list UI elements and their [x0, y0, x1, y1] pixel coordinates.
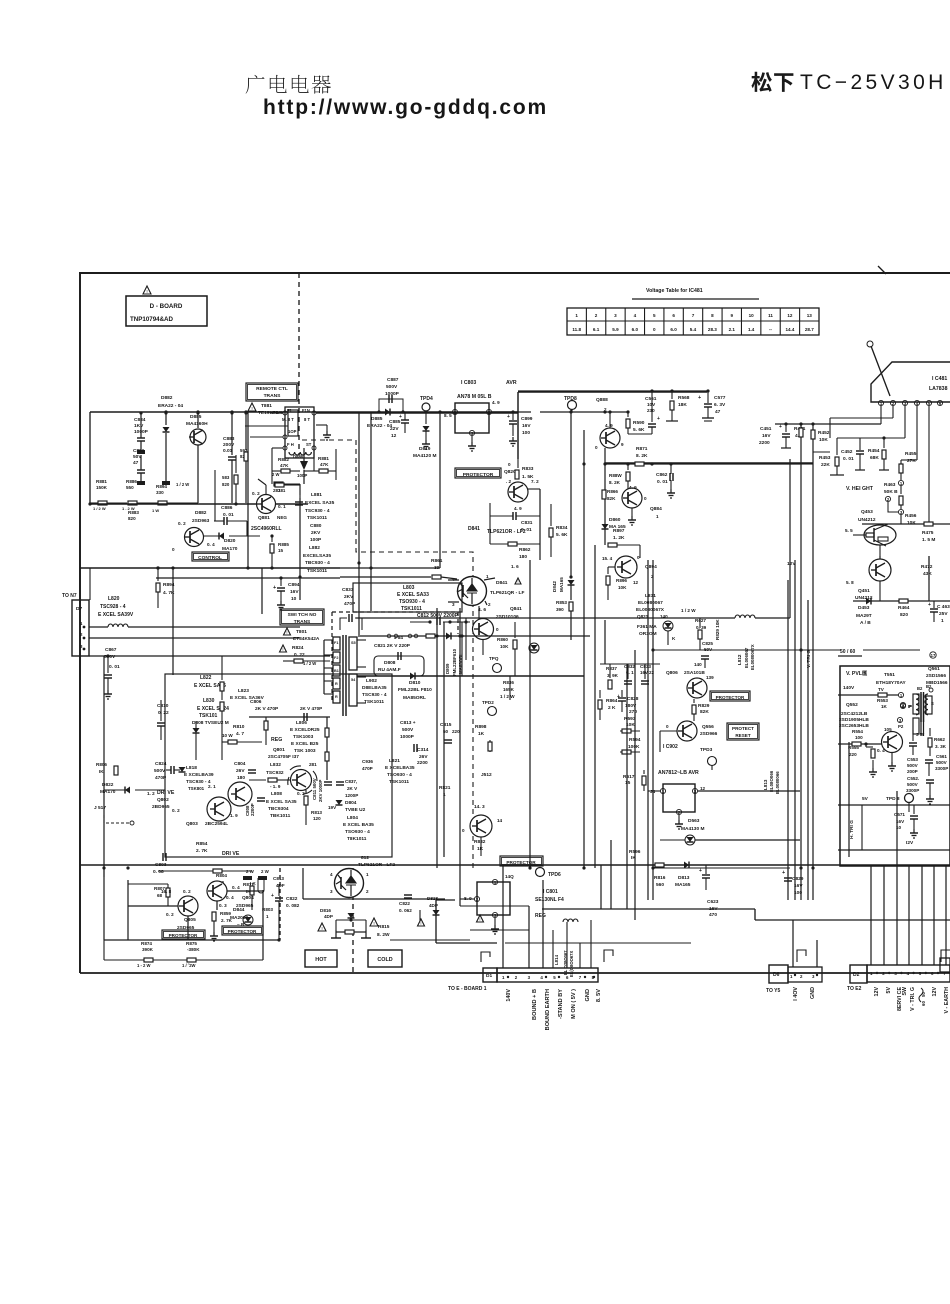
svg-text:RESET: RESET — [735, 733, 751, 738]
svg-text:D841: D841 — [496, 580, 508, 586]
svg-text:C887: C887 — [387, 377, 399, 383]
svg-text:47K: 47K — [320, 462, 329, 467]
svg-text:8. 2K: 8. 2K — [636, 453, 648, 459]
svg-text:C577: C577 — [714, 395, 726, 401]
svg-text:E XCEL B25: E XCEL B25 — [291, 741, 319, 747]
svg-text:2K V 470P: 2K V 470P — [255, 706, 279, 712]
svg-text:TSK 1003: TSK 1003 — [294, 748, 316, 754]
svg-text:E XCEL SA33: E XCEL SA33 — [397, 592, 429, 598]
page header: site name — [246, 75, 331, 94]
svg-text:AVR: AVR — [506, 380, 517, 386]
svg-text:18K: 18K — [678, 402, 687, 408]
V.PVL inner vertical and bottom wires — [848, 742, 850, 857]
svg-text:Q451: Q451 — [858, 588, 870, 594]
transistor Q451 UN4212 — [869, 559, 891, 581]
svg-text:D2: D2 — [853, 972, 860, 978]
svg-text:4. 6: 4. 6 — [478, 607, 486, 613]
svg-text:5. 6K: 5. 6K — [633, 427, 645, 433]
svg-text:F H: F H — [287, 442, 294, 447]
svg-text:8. 2K: 8. 2K — [609, 480, 621, 485]
svg-text:HOT: HOT — [315, 957, 327, 963]
svg-text:R: R — [335, 695, 338, 699]
svg-text:TSK801: TSK801 — [188, 786, 205, 791]
svg-text:MA170: MA170 — [222, 546, 238, 552]
svg-text:R832: R832 — [474, 839, 486, 845]
svg-text:TPD4: TPD4 — [420, 396, 433, 402]
svg-text:C884: C884 — [134, 417, 146, 423]
wire x=262 vertical — [261, 568, 263, 614]
wire verticals x=627 x=635 — [626, 664, 628, 909]
connector D7 box — [72, 600, 89, 656]
resistor R816 560 — [655, 863, 664, 867]
svg-text:R456: R456 — [905, 513, 917, 519]
svg-text:4. 9: 4. 9 — [492, 400, 500, 405]
svg-text:0: 0 — [637, 555, 640, 560]
svg-text:C881: C881 — [133, 448, 145, 454]
resistor R859 2.7K — [212, 912, 216, 921]
svg-text:1. 5 M: 1. 5 M — [922, 537, 935, 543]
svg-text:100P: 100P — [310, 537, 322, 543]
svg-text:MA4120 M: MA4120 M — [413, 453, 436, 459]
svg-text:9: 9 — [730, 313, 733, 318]
svg-text:T551: T551 — [884, 672, 895, 678]
wire y=412 segment mid — [540, 411, 628, 413]
svg-text:UN4212: UN4212 — [855, 595, 873, 601]
svg-text:9: 9 — [621, 442, 624, 447]
wire pin5 down — [928, 406, 930, 524]
wire vertical x=929 extension — [928, 556, 930, 601]
svg-text:. 2: . 2 — [506, 479, 512, 484]
svg-text:TC−25V30H: TC−25V30H — [800, 71, 947, 94]
bracket hook D6 — [797, 950, 806, 962]
svg-text:R885: R885 — [278, 542, 289, 547]
svg-text:I 4OV: I 4OV — [793, 987, 799, 1001]
svg-text:+: + — [657, 416, 660, 422]
svg-text:TSO930 - 4: TSO930 - 4 — [387, 772, 412, 778]
svg-text:PROTECTOR: PROTECTOR — [716, 695, 745, 700]
svg-text:4DF: 4DF — [276, 883, 285, 888]
svg-text:470P: 470P — [155, 775, 167, 781]
svg-text:TLP621QR - LF: TLP621QR - LF — [490, 590, 524, 596]
svg-text:R897: R897 — [613, 528, 625, 534]
svg-text:B2: B2 — [917, 686, 923, 691]
svg-text:R810: R810 — [233, 724, 245, 730]
wire y=618 with coil L812 — [660, 617, 735, 619]
svg-text:R: R — [335, 682, 338, 686]
wire transformer ground hook — [316, 424, 327, 426]
wire D7 pin1 long — [160, 626, 300, 628]
PROTECTOR label box 4 — [222, 926, 263, 935]
svg-text:8. 5V: 8. 5V — [596, 989, 602, 1002]
svg-text:D842: D842 — [552, 581, 557, 592]
svg-text:!: ! — [518, 580, 519, 584]
svg-text:K: K — [672, 636, 676, 641]
svg-text:TSK1011: TSK1011 — [401, 606, 422, 612]
svg-text:17: 17 — [931, 653, 936, 658]
svg-text:R452: R452 — [818, 430, 830, 436]
svg-text:0. 01: 0. 01 — [843, 456, 854, 462]
svg-text:5. 6K: 5. 6K — [556, 532, 568, 538]
svg-text:0. 062: 0. 062 — [399, 908, 412, 913]
svg-text:140V: 140V — [506, 989, 512, 1002]
capacitor C811 1000P — [324, 781, 332, 783]
svg-text:12: 12 — [391, 433, 397, 439]
svg-text:2K V 470P: 2K V 470P — [300, 706, 322, 711]
svg-text:PROTECTOR: PROTECTOR — [463, 472, 494, 478]
bracket hook far right — [941, 950, 950, 962]
svg-text:812: 812 — [361, 855, 369, 861]
connector D1 box — [483, 968, 497, 982]
hot/cold isolation dashed line upper — [298, 273, 300, 455]
wire q841 down — [482, 640, 484, 655]
page header: model — [751, 72, 793, 92]
svg-text:+: + — [399, 414, 402, 420]
diode L818 — [179, 767, 186, 772]
svg-text:--: -- — [769, 327, 773, 332]
svg-text:16V: 16V — [794, 883, 803, 889]
svg-text:C452: C452 — [841, 449, 853, 455]
svg-text:47: 47 — [715, 409, 721, 415]
svg-text:1000P: 1000P — [400, 734, 415, 740]
svg-text:L882: L882 — [309, 545, 320, 551]
svg-text:14. 3: 14. 3 — [474, 804, 485, 810]
svg-text:R862: R862 — [519, 547, 531, 553]
svg-text:0: 0 — [666, 724, 669, 729]
svg-text:TSK101: TSK101 — [199, 713, 218, 719]
transistor Q804 — [207, 881, 227, 901]
svg-text:E XCEL SA39V: E XCEL SA39V — [98, 612, 134, 618]
svg-text:D844: D844 — [233, 907, 245, 913]
svg-text:R875: R875 — [186, 941, 197, 946]
svg-text:50 / 60: 50 / 60 — [840, 649, 856, 655]
svg-text:11.8: 11.8 — [572, 327, 581, 332]
wire y=868 right segment — [653, 867, 790, 869]
svg-text:16V: 16V — [522, 423, 531, 429]
svg-text:+: + — [507, 414, 510, 420]
svg-text:2SD1905HLB: 2SD1905HLB — [839, 717, 869, 723]
svg-text:- 1. 9: - 1. 9 — [270, 784, 281, 789]
svg-text:100K: 100K — [628, 744, 640, 750]
svg-text:L821: L821 — [389, 758, 400, 764]
svg-text:RU 4AM.F: RU 4AM.F — [378, 667, 401, 673]
IC481 pins — [878, 400, 883, 405]
svg-text:281: 281 — [273, 488, 281, 493]
svg-text:7: 7 — [692, 313, 695, 318]
svg-text:1: 1 — [366, 872, 369, 877]
svg-text:R568: R568 — [678, 395, 690, 401]
svg-text:C822: C822 — [399, 901, 410, 906]
V.PVL output block box — [840, 666, 950, 866]
svg-text:TPQ: TPQ — [489, 656, 499, 661]
svg-text:8. 2W: 8. 2W — [377, 932, 390, 938]
svg-text:Q802: Q802 — [157, 797, 169, 803]
triangle marker above D-BOARD — [143, 286, 151, 294]
svg-text:R883: R883 — [128, 510, 139, 515]
svg-text:180: 180 — [519, 554, 527, 560]
svg-text:+: + — [271, 893, 274, 899]
wire top y=391 — [518, 390, 707, 392]
svg-text:R898: R898 — [475, 724, 487, 730]
svg-text:I K: I K — [250, 881, 257, 886]
svg-text:TSO930 - 4: TSO930 - 4 — [345, 829, 370, 835]
svg-text:L830: L830 — [203, 698, 215, 704]
svg-text:ET34K542A: ET34K542A — [293, 636, 320, 642]
svg-text:D886: D886 — [293, 454, 304, 459]
svg-text:2SC4212LB: 2SC4212LB — [841, 711, 868, 717]
svg-text:REMOTE CTL: REMOTE CTL — [256, 386, 288, 392]
svg-text:2SC4960RLL: 2SC4960RLL — [251, 526, 282, 532]
svg-text:I C481: I C481 — [932, 376, 947, 382]
IC481 LA7838 body — [871, 362, 950, 402]
svg-text:TSK1011: TSK1011 — [364, 699, 384, 705]
svg-text:2.1: 2.1 — [729, 327, 736, 332]
svg-text:J 517: J 517 — [94, 805, 106, 811]
svg-text:68K: 68K — [870, 455, 879, 461]
svg-text:Q552: Q552 — [846, 702, 858, 708]
svg-text:R464: R464 — [898, 605, 910, 611]
svg-text:0.01: 0.01 — [223, 448, 233, 454]
svg-text:4: 4 — [540, 975, 543, 980]
svg-text:R861: R861 — [431, 558, 443, 564]
svg-text:6.0: 6.0 — [632, 327, 639, 332]
wire vertical bus x=248 — [247, 412, 249, 568]
svg-text:B1: B1 — [334, 669, 339, 673]
svg-text:MA85ORL: MA85ORL — [403, 695, 426, 701]
svg-text:L818: L818 — [186, 765, 197, 771]
svg-text:C825: C825 — [702, 641, 713, 646]
svg-text:R882: R882 — [278, 457, 289, 462]
wire into transformer left — [245, 425, 288, 427]
svg-text:3300P: 3300P — [906, 788, 919, 793]
svg-text:0: 0 — [644, 496, 647, 501]
svg-text:IK: IK — [99, 769, 104, 774]
svg-text:2200: 2200 — [417, 760, 428, 766]
svg-text:1: 1 — [502, 975, 505, 980]
wire Q820 collector right — [528, 488, 540, 490]
PROTECTOR label box 2 — [710, 691, 750, 701]
coil L820 — [89, 626, 108, 628]
svg-text:12: 12 — [633, 580, 639, 585]
svg-text:I2V: I2V — [906, 840, 914, 846]
right bus verticals group — [794, 560, 796, 900]
svg-text:82K: 82K — [700, 709, 709, 715]
svg-text:P2: P2 — [898, 724, 904, 729]
svg-text:22V: 22V — [390, 426, 399, 432]
svg-text:SW: SW — [902, 987, 908, 996]
wire vertical x=466 — [465, 618, 467, 660]
svg-text:139: 139 — [706, 675, 714, 680]
svg-text:F1: F1 — [334, 641, 338, 645]
svg-text:4. 7: 4. 7 — [236, 731, 244, 737]
svg-text:0. 2: 0. 2 — [183, 889, 191, 894]
svg-text:L902: L902 — [366, 678, 377, 684]
svg-text:D820: D820 — [224, 538, 236, 544]
wire pin2 down — [892, 406, 894, 418]
svg-text:Q820: Q820 — [504, 469, 516, 475]
svg-text:TPD6: TPD6 — [548, 872, 561, 878]
svg-text:R806: R806 — [96, 762, 107, 767]
svg-text:+: + — [928, 602, 931, 608]
svg-text:R803: R803 — [262, 907, 273, 912]
svg-text:Q884: Q884 — [650, 506, 662, 512]
wire verticals mid — [600, 865, 602, 909]
svg-text:!: ! — [479, 917, 480, 922]
svg-text:TSO930 - 4: TSO930 - 4 — [399, 599, 425, 605]
svg-text:390K: 390K — [142, 947, 154, 952]
svg-text:4. 9: 4. 9 — [605, 423, 613, 428]
svg-text:R816: R816 — [654, 875, 666, 881]
svg-text:Q453: Q453 — [861, 509, 873, 515]
svg-text:F1N: F1N — [302, 408, 310, 413]
IC801 SE130NLF4 box — [477, 882, 510, 915]
svg-text:0. 2: 0. 2 — [297, 791, 305, 796]
wire y=940 bottom-left — [104, 939, 280, 941]
svg-text:500V: 500V — [936, 760, 948, 765]
svg-text:J512: J512 — [481, 772, 492, 778]
svg-text:+: + — [617, 694, 620, 700]
svg-text:0. 2: 0. 2 — [166, 912, 174, 917]
svg-text:TPD 8: TPD 8 — [886, 796, 900, 802]
svg-text:C862: C862 — [656, 472, 668, 478]
triangle marker T881 — [248, 403, 256, 411]
transistor Q884 — [622, 488, 642, 508]
svg-text:47: 47 — [133, 460, 139, 466]
svg-text:V. TRI G: V. TRI G — [806, 650, 812, 668]
svg-text:D822: D822 — [102, 782, 114, 788]
svg-text:TBC9304: TBC9304 — [268, 806, 289, 812]
bracket hooks D1 — [481, 952, 490, 962]
svg-text:2 W: 2 W — [272, 472, 279, 477]
svg-text:R463: R463 — [884, 482, 896, 488]
svg-text:C832: C832 — [624, 664, 635, 669]
svg-text:TPD3: TPD3 — [700, 747, 713, 753]
svg-text:TSK1011: TSK1011 — [307, 568, 327, 574]
wires near D818 — [419, 910, 421, 921]
svg-text:105: 105 — [884, 727, 892, 732]
svg-text:1K: 1K — [881, 704, 888, 709]
svg-text:1 / 2 W: 1 / 2 W — [176, 482, 189, 487]
wire vertical x=605 extension — [604, 620, 606, 664]
svg-text:BOUND EARTH: BOUND EARTH — [545, 989, 551, 1030]
svg-text:I C902: I C902 — [663, 744, 678, 750]
svg-text:EL(O8OO67X: EL(O8OO67X — [569, 950, 574, 977]
wire vertical x=440 — [439, 412, 441, 568]
svg-text:4DP: 4DP — [429, 903, 438, 908]
svg-text:Q556: Q556 — [702, 724, 714, 730]
wire y=636 main secondary — [360, 635, 590, 637]
svg-text:1 / ˜2W: 1 / ˜2W — [182, 963, 196, 968]
svg-text:2: 2 — [595, 313, 598, 318]
svg-text:C813: C813 — [273, 876, 284, 881]
hot/cold isolation dashed path middle — [302, 440, 473, 868]
svg-text:R662: R662 — [934, 737, 945, 742]
wire y=464 to C451 area — [800, 463, 813, 465]
svg-text:120: 120 — [313, 816, 321, 821]
svg-text:100: 100 — [522, 430, 530, 436]
svg-text:D - BOARD: D - BOARD — [150, 303, 183, 310]
drive block outline — [165, 674, 392, 857]
svg-text:820: 820 — [900, 612, 908, 618]
svg-text:D810: D810 — [409, 680, 421, 686]
svg-text:22K: 22K — [821, 462, 830, 468]
svg-text:0. 082: 0. 082 — [286, 903, 300, 909]
svg-text:2K V: 2K V — [347, 786, 358, 791]
svg-text:560: 560 — [656, 882, 664, 888]
PROTECTOR label box 5 — [500, 856, 543, 866]
svg-text:500V: 500V — [386, 384, 398, 390]
svg-text:1. 2: 1. 2 — [147, 791, 155, 796]
PROTECT RESET label box — [727, 723, 759, 740]
svg-text:M. 8 T: M. 8 T — [282, 417, 294, 422]
svg-text:100: 100 — [855, 735, 863, 740]
svg-text:1200P: 1200P — [345, 793, 358, 798]
svg-text:26V: 26V — [419, 754, 428, 760]
svg-text:0. 2: 0. 2 — [172, 808, 180, 813]
PROTECTOR label box 1 — [455, 468, 501, 478]
svg-text:0. 1: 0. 1 — [278, 504, 286, 509]
svg-text:D808 TVSEU2 M: D808 TVSEU2 M — [192, 720, 229, 726]
svg-text:R824: R824 — [292, 645, 304, 651]
svg-text:470P: 470P — [362, 766, 373, 771]
svg-text:MA165: MA165 — [559, 577, 564, 592]
CONTROL label box — [192, 552, 229, 561]
svg-text:R834: R834 — [556, 525, 568, 531]
transformer T801 primary windings — [333, 637, 340, 650]
svg-text:L881: L881 — [311, 492, 322, 498]
resistor R833 vertical — [517, 459, 519, 468]
resistor x=266 — [265, 717, 267, 745]
svg-text:R854: R854 — [196, 841, 208, 847]
svg-text:R88W: R88W — [609, 473, 622, 478]
svg-text:I C803: I C803 — [461, 380, 476, 386]
svg-text:AN7812~LB AVR: AN7812~LB AVR — [658, 770, 699, 776]
svg-text:1OP: 1OP — [288, 429, 297, 434]
svg-text:DRI VE: DRI VE — [157, 790, 175, 796]
wire y=650 right — [653, 649, 841, 651]
wire y=618 long with C812 — [356, 617, 660, 619]
svg-text:2: 2 — [366, 889, 369, 894]
svg-text:6: 6 — [672, 313, 675, 318]
svg-text:Q805: Q805 — [184, 917, 196, 923]
svg-text:TSC932: TSC932 — [266, 770, 284, 776]
svg-text:FML22BL F810: FML22BL F810 — [398, 687, 432, 693]
remote ctl trans label box — [246, 383, 298, 401]
svg-text:E XCELBA39: E XCELBA39 — [184, 772, 214, 778]
svg-text:V. PVL匯: V. PVL匯 — [846, 669, 868, 677]
junction dots sprinkle — [164, 411, 167, 414]
svg-text:0: 0 — [653, 327, 656, 332]
svg-text:200V: 200V — [223, 442, 235, 448]
transistor Q805 — [178, 896, 198, 916]
svg-text:1 / 2 W: 1 / 2 W — [681, 608, 696, 613]
svg-text:D804: D804 — [345, 800, 357, 806]
svg-text:0. 22: 0. 22 — [158, 710, 169, 716]
svg-text:D882: D882 — [161, 395, 173, 401]
svg-text:!: ! — [286, 630, 287, 635]
svg-text:500V: 500V — [104, 654, 116, 660]
svg-text:28.3: 28.3 — [708, 327, 717, 332]
wire 12V bus x=790 — [789, 459, 791, 618]
svg-text:2SD963: 2SD963 — [192, 518, 210, 524]
wire right of R875 — [262, 890, 264, 960]
svg-text:PROTECT: PROTECT — [732, 726, 754, 731]
wire vertical x=530 mid — [529, 560, 531, 868]
svg-text:C880: C880 — [310, 523, 322, 529]
svg-text:D453: D453 — [858, 605, 870, 611]
Q453 emitter down — [879, 545, 881, 556]
svg-text:DRI VE: DRI VE — [222, 851, 240, 857]
svg-text:R455: R455 — [905, 451, 917, 457]
